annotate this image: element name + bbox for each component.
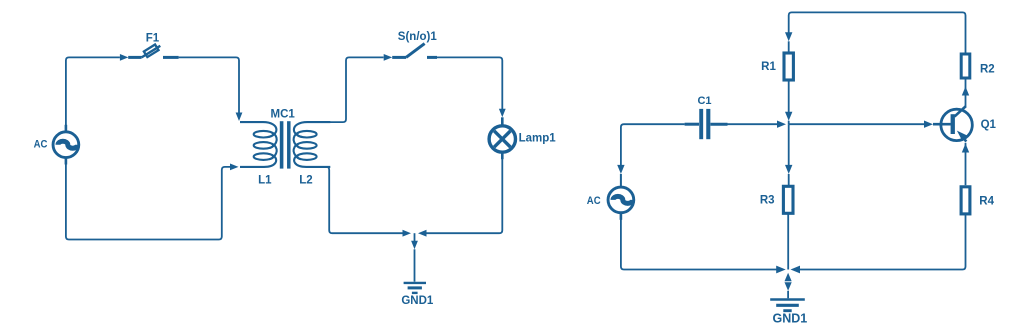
wire R3 lead top	[788, 174, 790, 186]
transistor Q1	[941, 109, 972, 140]
ground stem (left)	[414, 233, 416, 241]
wire top (right circuit)	[789, 12, 966, 54]
resistor R4	[961, 187, 970, 214]
arrow into switch	[384, 54, 393, 61]
arrow into R3	[785, 165, 792, 174]
arrow junction from left (right gnd)	[776, 266, 786, 274]
wire R4 bottom to junction	[800, 214, 966, 270]
svg-text:S(n/o)1: S(n/o)1	[398, 31, 438, 43]
ground stem (right)	[785, 273, 792, 282]
arrow into node from R1	[785, 112, 792, 121]
arrow collector up	[962, 87, 969, 96]
fuse F1 right contact	[163, 56, 179, 59]
resistor R2	[961, 54, 970, 78]
inductor L2 (secondary coil)	[294, 122, 331, 167]
arrow into L1 bottom	[230, 164, 239, 171]
ground GND1 (left)	[404, 282, 426, 284]
arrow into Q1 base	[924, 121, 933, 128]
wire lamp stub top	[501, 117, 504, 126]
switch S(n/o)1 right contact	[427, 56, 437, 59]
wire lamp stub bottom	[501, 151, 504, 159]
svg-text:R1: R1	[761, 61, 776, 73]
svg-text:L1: L1	[258, 175, 272, 187]
svg-text:R4: R4	[979, 195, 994, 207]
ground GND1 (right)	[770, 298, 805, 300]
transformer core MC1	[280, 121, 284, 168]
wire R1 to node	[788, 80, 790, 117]
wire AC top to corner	[66, 57, 120, 125]
arrow into node from C1	[777, 121, 786, 128]
svg-text:Lamp1: Lamp1	[519, 132, 557, 144]
ac source AC (right)	[608, 187, 634, 213]
wire node to Q1 base	[789, 123, 925, 125]
resistor R1	[784, 53, 793, 80]
svg-text:L2: L2	[299, 175, 312, 187]
resistor R3	[783, 186, 793, 213]
capacitor C1	[685, 123, 699, 126]
svg-text:R3: R3	[760, 194, 775, 206]
svg-text:GND1: GND1	[401, 295, 434, 307]
wire AC bottom to junction (right)	[621, 218, 777, 270]
wire L2 top to switch	[308, 57, 384, 122]
wire stub node top	[788, 121, 790, 125]
wire AC drop (right)	[621, 124, 685, 170]
wire L1 bottom back to AC	[66, 164, 230, 240]
ac source AC (left)	[53, 132, 79, 158]
wire C1 to node	[728, 123, 778, 125]
arrow into L1 top	[236, 113, 243, 122]
svg-text:Q1: Q1	[981, 119, 997, 131]
wire node to R3	[788, 124, 790, 170]
svg-text:MC1: MC1	[271, 108, 296, 120]
svg-text:GND1: GND1	[773, 312, 808, 326]
arrow into lamp	[499, 109, 506, 118]
lamp Lamp1	[489, 126, 515, 152]
svg-text:AC: AC	[587, 195, 601, 207]
fuse F1 left lead	[128, 56, 141, 59]
wire AC stub (right)	[620, 174, 622, 188]
wire R3 to junction	[787, 213, 789, 269]
arrow into R1	[785, 32, 792, 41]
wire lamp to junction	[427, 157, 503, 233]
arrow emitter up	[962, 144, 969, 153]
switch S(n/o)1 blade	[406, 44, 425, 58]
fuse F1 cartridge	[144, 45, 159, 58]
fuse F1 blade	[142, 46, 161, 58]
wire Q1 collector	[965, 78, 967, 106]
svg-text:AC: AC	[34, 139, 48, 151]
arrow junction from left (left gnd)	[403, 230, 412, 237]
wire Q1 emitter	[965, 143, 967, 185]
arrow junction from right (right gnd)	[791, 266, 801, 274]
wire fuse to corner and down to L1	[179, 57, 239, 113]
wire L2 bottom to junction	[307, 167, 403, 233]
svg-text:R2: R2	[980, 64, 995, 76]
wire switch to lamp	[437, 57, 502, 113]
svg-text:C1: C1	[697, 95, 711, 107]
svg-text:F1: F1	[146, 33, 160, 45]
switch S(n/o)1 left lead	[392, 56, 406, 59]
inductor L1 (primary coil)	[240, 122, 276, 137]
arrow junction from right (left gnd)	[418, 230, 427, 237]
wire R1 lead top	[788, 41, 790, 53]
arrow into fuse	[120, 54, 128, 61]
arrow into AC (right)	[617, 165, 624, 174]
